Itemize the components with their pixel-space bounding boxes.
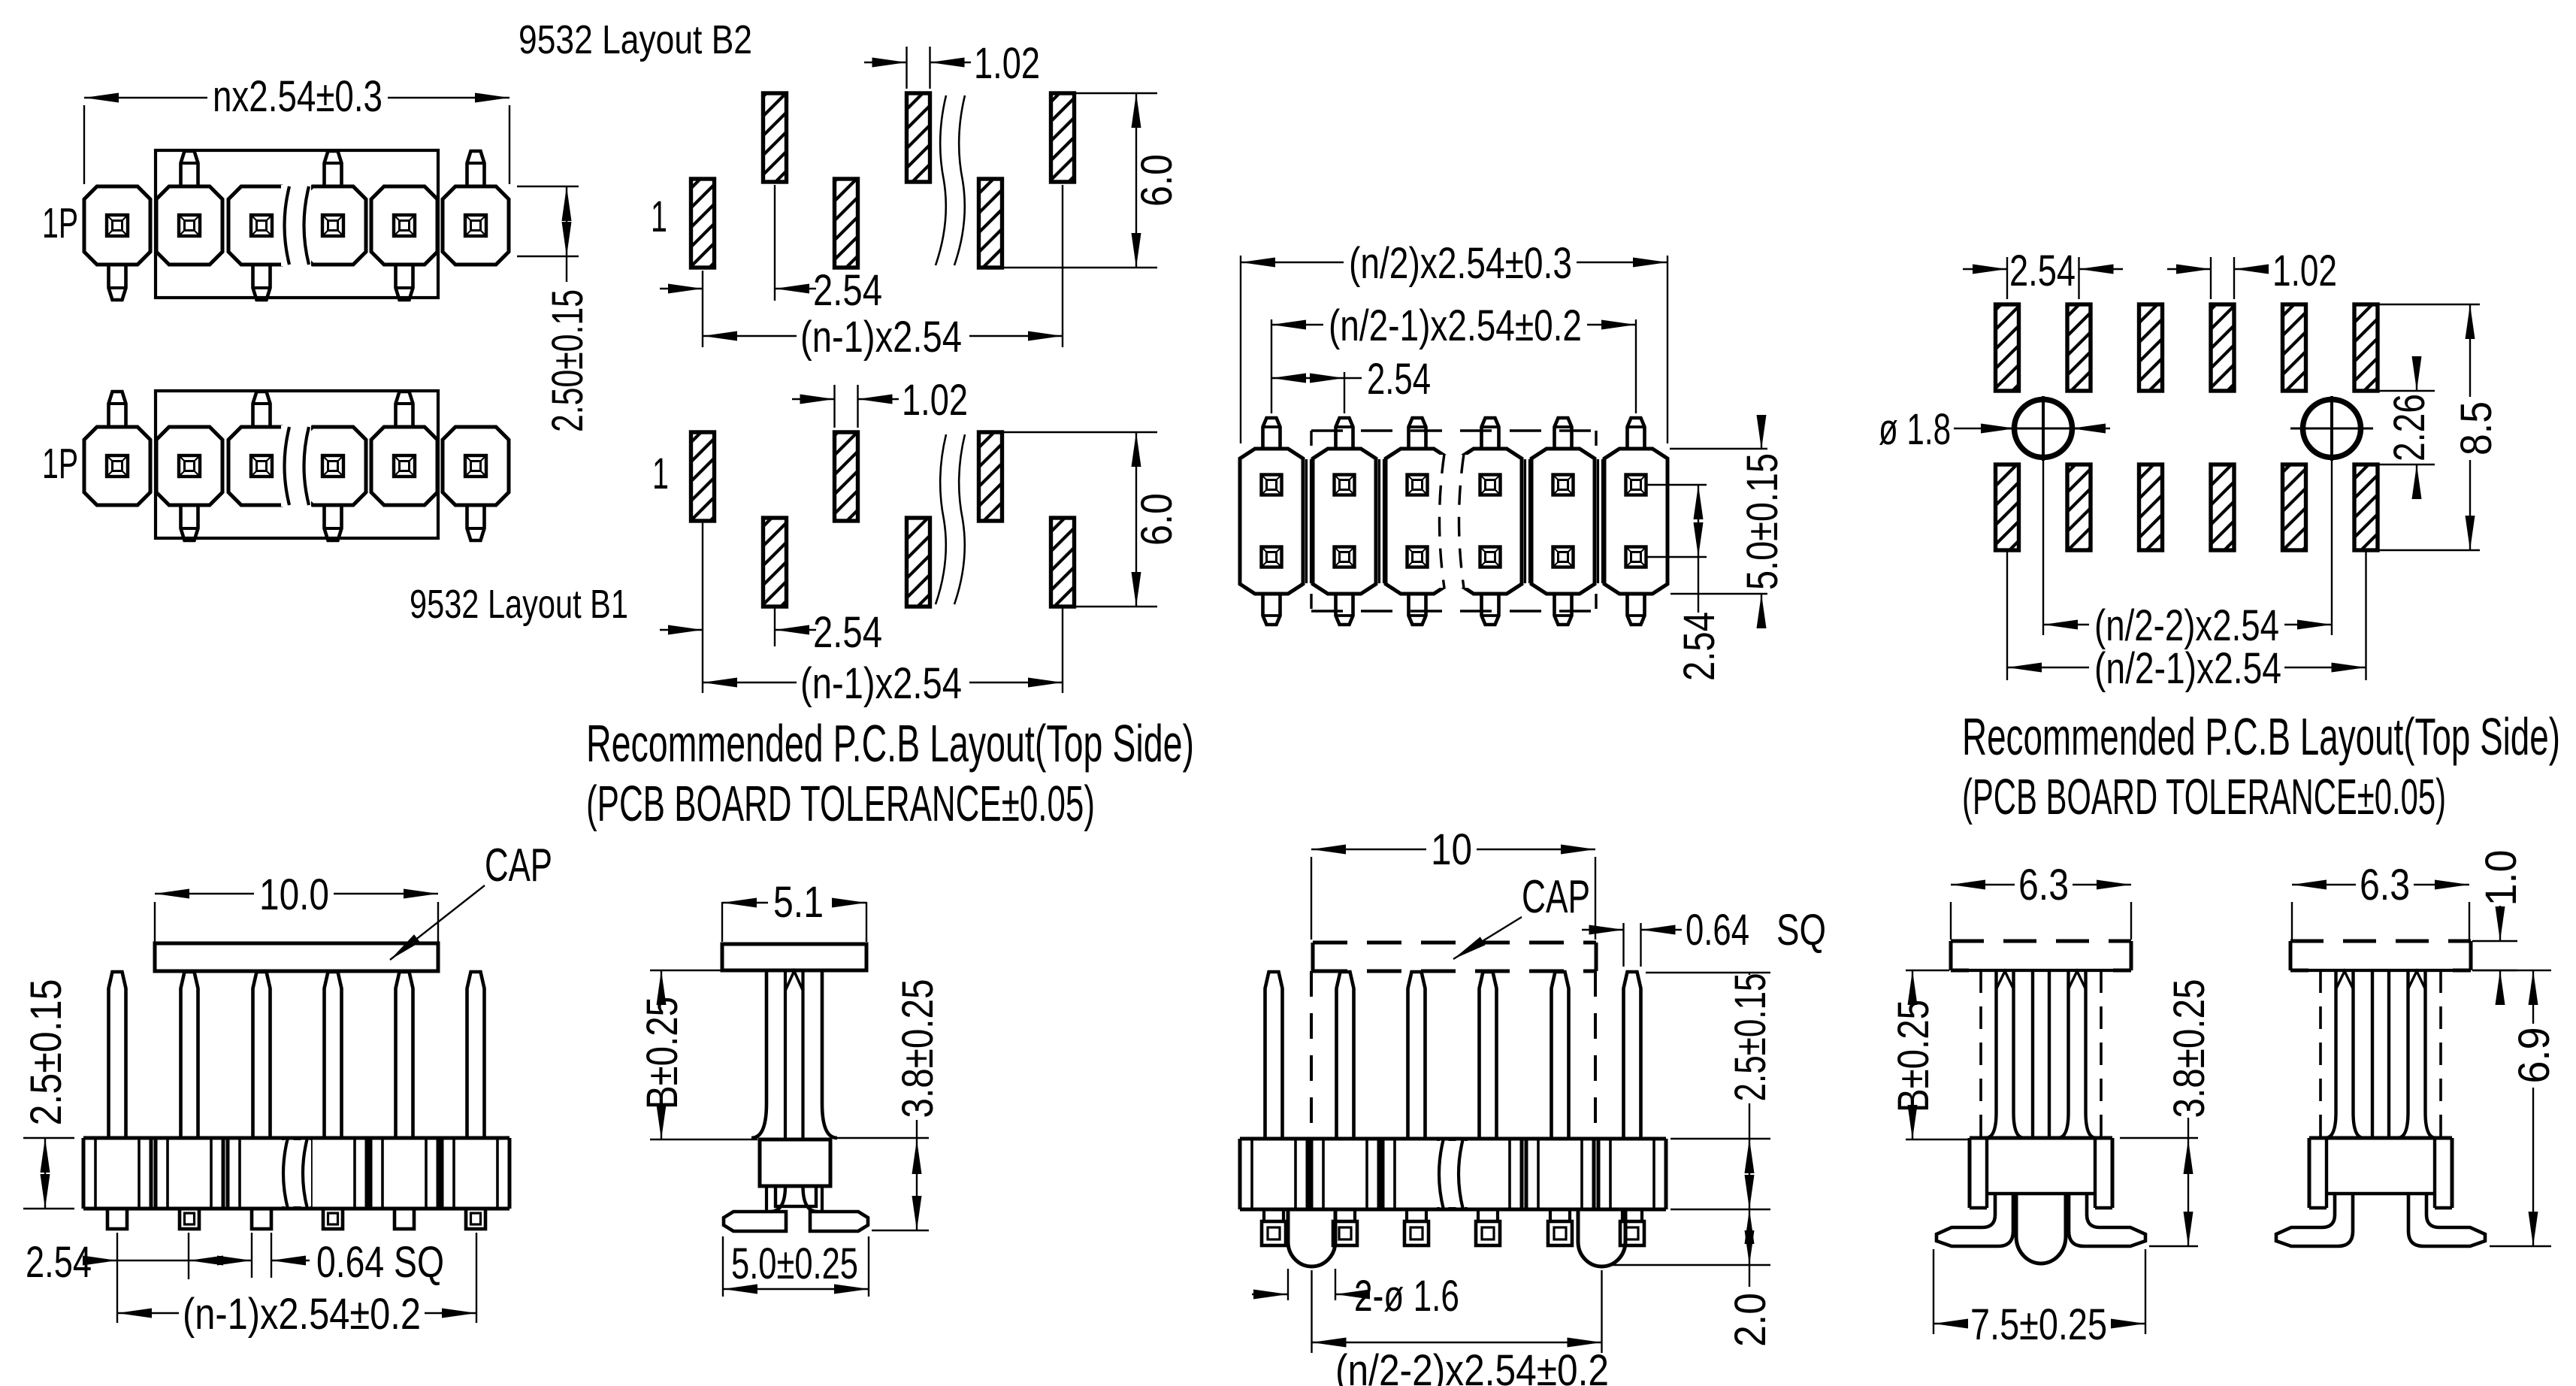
svg-text:(n/2)x2.54±0.3: (n/2)x2.54±0.3 [1349, 239, 1572, 288]
svg-text:8.5: 8.5 [2452, 401, 2501, 455]
svg-text:6.3: 6.3 [2018, 861, 2069, 909]
svg-text:10: 10 [1431, 825, 1472, 874]
svg-text:(n/2-1)x2.54: (n/2-1)x2.54 [2094, 644, 2281, 693]
svg-text:1P: 1P [42, 440, 78, 488]
svg-text:B±0.25: B±0.25 [1889, 1000, 1938, 1112]
svg-text:1P: 1P [42, 199, 78, 247]
svg-text:0.64 SQ: 0.64 SQ [316, 1238, 444, 1287]
svg-text:SQ: SQ [1776, 906, 1826, 955]
svg-text:9532 Layout B1: 9532 Layout B1 [410, 582, 628, 627]
svg-text:2.0: 2.0 [1726, 1293, 1775, 1347]
svg-text:2-ø 1.6: 2-ø 1.6 [1354, 1272, 1459, 1321]
svg-text:1.02: 1.02 [902, 376, 968, 425]
svg-text:2.50±0.15: 2.50±0.15 [543, 289, 592, 432]
svg-text:3.8±0.25: 3.8±0.25 [2165, 979, 2214, 1118]
svg-text:(n/2-1)x2.54±0.2: (n/2-1)x2.54±0.2 [1329, 301, 1582, 350]
svg-text:Recommended P.C.B Layout(Top S: Recommended P.C.B Layout(Top Side) [1962, 707, 2560, 766]
svg-text:1: 1 [652, 449, 669, 498]
svg-text:ø 1.8: ø 1.8 [1879, 405, 1951, 454]
svg-text:2.54: 2.54 [813, 608, 882, 657]
svg-text:1.0: 1.0 [2477, 850, 2526, 906]
svg-text:1.02: 1.02 [2272, 247, 2337, 295]
svg-text:5.0±0.15: 5.0±0.15 [1738, 453, 1787, 590]
svg-text:(n/2-2)x2.54: (n/2-2)x2.54 [2094, 601, 2279, 650]
svg-text:6.0: 6.0 [1132, 154, 1181, 207]
svg-text:CAP: CAP [485, 840, 552, 891]
svg-text:7.5±0.25: 7.5±0.25 [1970, 1300, 2107, 1349]
svg-text:(n-1)x2.54: (n-1)x2.54 [800, 659, 962, 708]
svg-text:CAP: CAP [1522, 871, 1590, 923]
svg-text:1.02: 1.02 [974, 39, 1040, 88]
svg-text:(PCB BOARD TOLERANCE±0.05): (PCB BOARD TOLERANCE±0.05) [1962, 769, 2446, 825]
svg-text:9532 Layout B2: 9532 Layout B2 [519, 17, 752, 62]
svg-text:2.54: 2.54 [813, 266, 882, 315]
svg-text:0.64: 0.64 [1686, 906, 1749, 955]
svg-text:2.54: 2.54 [26, 1238, 92, 1287]
svg-text:(n-1)x2.54: (n-1)x2.54 [800, 313, 962, 362]
svg-text:(n-1)x2.54±0.2: (n-1)x2.54±0.2 [183, 1290, 421, 1339]
svg-text:3.8±0.25: 3.8±0.25 [893, 979, 942, 1118]
svg-text:2.54: 2.54 [1367, 355, 1431, 404]
svg-text:2.5±0.15: 2.5±0.15 [22, 979, 71, 1126]
svg-text:(PCB BOARD TOLERANCE±0.05): (PCB BOARD TOLERANCE±0.05) [586, 776, 1095, 832]
svg-text:2.26: 2.26 [2385, 394, 2434, 461]
svg-text:Recommended P.C.B Layout(Top S: Recommended P.C.B Layout(Top Side) [586, 714, 1194, 773]
svg-text:B±0.25: B±0.25 [638, 997, 687, 1109]
svg-text:10.0: 10.0 [259, 870, 329, 919]
svg-text:6.9: 6.9 [2510, 1027, 2559, 1084]
svg-text:(n/2-2)x2.54±0.2: (n/2-2)x2.54±0.2 [1335, 1346, 1609, 1386]
svg-text:5.1: 5.1 [773, 878, 824, 927]
svg-text:6.3: 6.3 [2360, 861, 2410, 909]
svg-text:2.5±0.15: 2.5±0.15 [1726, 973, 1775, 1102]
svg-text:5.0±0.25: 5.0±0.25 [731, 1239, 858, 1288]
svg-text:nx2.54±0.3: nx2.54±0.3 [213, 72, 382, 121]
svg-text:1: 1 [651, 192, 667, 241]
svg-text:2.54: 2.54 [1675, 612, 1724, 681]
svg-text:2.54: 2.54 [2009, 247, 2076, 295]
svg-text:6.0: 6.0 [1132, 493, 1181, 546]
